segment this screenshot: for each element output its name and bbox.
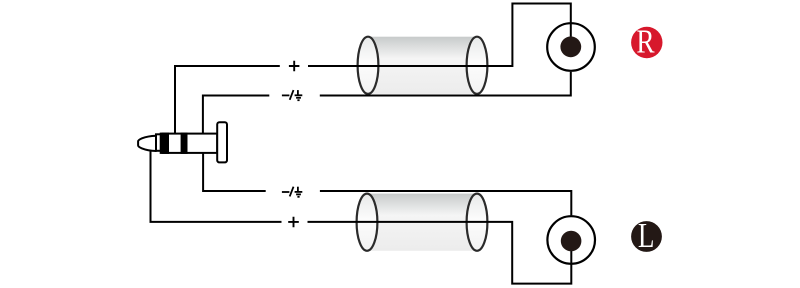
svg-text:L: L [638, 216, 655, 255]
svg-text:R: R [636, 23, 655, 60]
